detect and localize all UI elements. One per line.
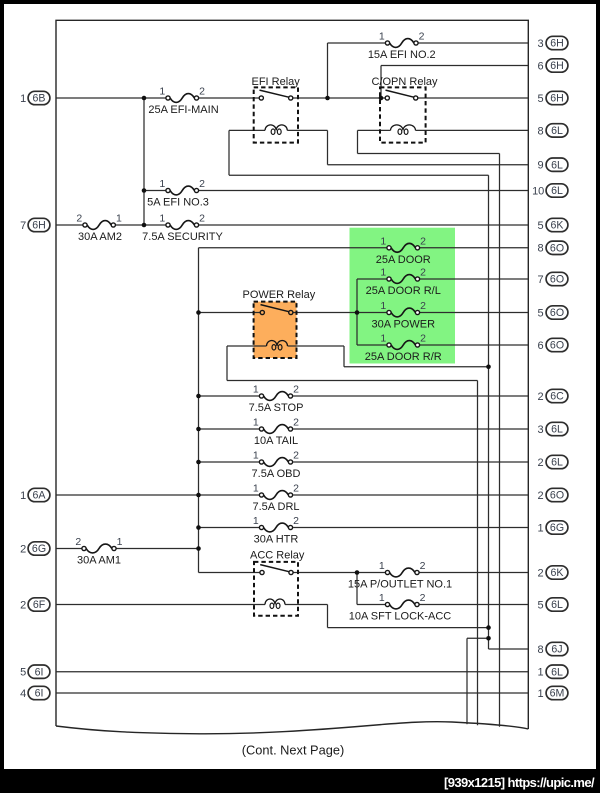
wire riser x=381 <box>380 66 382 99</box>
wire EFI relay to C/OPN relay <box>293 97 385 99</box>
frame top bar <box>0 0 600 4</box>
svg-text:1: 1 <box>116 213 122 225</box>
svg-text:30A POWER: 30A POWER <box>371 319 435 331</box>
wire 30A HTR to 1-6G <box>293 527 528 529</box>
connector 5 6I (left) <box>20 665 50 679</box>
svg-text:9: 9 <box>538 160 544 172</box>
wire 7.5A SECURITY to 5-6K <box>199 224 529 226</box>
svg-text:2: 2 <box>199 178 205 190</box>
svg-text:2: 2 <box>293 384 299 396</box>
svg-text:6L: 6L <box>551 457 563 469</box>
fuse 25A DOOR R/R <box>365 333 442 364</box>
svg-text:(Cont. Next Page): (Cont. Next Page) <box>242 743 344 758</box>
svg-text:1: 1 <box>20 490 26 502</box>
svg-text:6K: 6K <box>551 220 564 232</box>
wire EFI coil left lead <box>229 129 265 131</box>
wire row 5-6I / 1-6L (y=671.7) <box>56 671 528 673</box>
fuse 25A DOOR R/L <box>366 267 441 298</box>
connector 2 6C (right) <box>538 389 568 403</box>
svg-text:3: 3 <box>538 38 544 50</box>
wire POWER relay to 30A POWER <box>293 312 387 314</box>
connector 8 6J (right) <box>538 642 568 656</box>
svg-text:2: 2 <box>420 267 426 279</box>
svg-text:5: 5 <box>538 220 544 232</box>
svg-text:6I: 6I <box>35 666 44 678</box>
wire branch to 10A TAIL <box>199 428 260 430</box>
wire 7.5A OBD to 2-6L <box>293 461 528 463</box>
wire branch to 5A EFI NO.3 <box>144 190 166 192</box>
svg-text:5: 5 <box>538 93 544 105</box>
svg-text:1: 1 <box>380 235 386 247</box>
connector 5 6K (right) <box>538 218 568 232</box>
svg-text:6J: 6J <box>551 644 562 656</box>
junction node N (x=357,y=572.5) <box>355 570 360 575</box>
relay ACC Relay <box>250 550 305 616</box>
svg-text:5: 5 <box>538 307 544 319</box>
svg-text:1: 1 <box>20 93 26 105</box>
svg-text:6: 6 <box>538 60 544 72</box>
svg-text:7.5A OBD: 7.5A OBD <box>252 468 301 480</box>
svg-text:6A: 6A <box>33 490 47 502</box>
connector 3 6L (right) <box>538 422 568 436</box>
wire 6F feed to ACC coil (y=604.5) <box>56 604 265 606</box>
svg-text:2: 2 <box>293 450 299 462</box>
svg-text:1: 1 <box>159 86 165 98</box>
wire 30A POWER to 5-6O <box>420 312 529 314</box>
relay POWER Relay <box>243 289 316 358</box>
svg-text:1: 1 <box>380 333 386 345</box>
junction node P (x=488.5,y=627.6) <box>486 625 491 630</box>
svg-text:25A DOOR R/R: 25A DOOR R/R <box>365 351 442 363</box>
svg-text:5: 5 <box>538 599 544 611</box>
svg-text:25A EFI-MAIN: 25A EFI-MAIN <box>148 104 218 116</box>
wire POWER coil run (y=380.5) <box>227 380 478 382</box>
svg-text:10A TAIL: 10A TAIL <box>254 435 298 447</box>
frame left bar <box>0 0 4 793</box>
svg-text:4: 4 <box>20 688 26 700</box>
fuse 30A AM1 <box>75 536 122 567</box>
wire 6H feed to 30A AM2 (y=225) <box>56 224 83 226</box>
svg-text:6O: 6O <box>550 340 564 352</box>
wire EFI coil to coil-return bus (y=175.2) <box>229 174 489 176</box>
svg-text:2: 2 <box>538 457 544 469</box>
fuse 15A P/OUTLET NO.1 <box>348 560 452 591</box>
wire branch to 30A HTR <box>199 527 260 529</box>
wire 15A EFI NO.2 to 3-6H <box>418 42 528 44</box>
svg-text:1: 1 <box>253 515 259 527</box>
svg-text:25A DOOR: 25A DOOR <box>376 254 431 266</box>
connector 5 6H (right) <box>538 91 568 105</box>
fuse 30A POWER <box>371 300 435 331</box>
svg-text:6: 6 <box>538 340 544 352</box>
svg-text:[939x1215] https://upic.me/: [939x1215] https://upic.me/ <box>444 775 595 790</box>
svg-text:6K: 6K <box>551 567 564 579</box>
wire 7.5A STOP to 2-6C <box>293 395 528 397</box>
svg-text:30A AM1: 30A AM1 <box>77 555 121 567</box>
wire 25A DOOR to 8-6O <box>420 247 529 249</box>
connector 8 6O (right) <box>538 241 568 255</box>
wire 6A feed (y=495) <box>56 494 259 496</box>
svg-text:1: 1 <box>538 688 544 700</box>
fuse 25A DOOR <box>376 235 431 266</box>
svg-text:6M: 6M <box>550 688 565 700</box>
connector 1 6G (right) <box>538 521 568 535</box>
diagram border box <box>56 20 528 729</box>
fuse 7.5A STOP <box>249 384 304 415</box>
fuse 7.5A DRL <box>252 483 299 514</box>
connector 1 6B (left) <box>20 91 50 105</box>
svg-text:2: 2 <box>20 599 26 611</box>
orange highlight POWER Relay <box>254 302 297 358</box>
wire C/OPN coil run (y=153.5) <box>358 153 500 155</box>
wire 10A TAIL to 3-6L <box>293 428 528 430</box>
wire 25A DOOR R/L to 7-6O <box>420 278 529 280</box>
wire C/OPN coil right to 8-6L <box>416 129 529 131</box>
junction node C (x=381,y=98) <box>379 96 384 101</box>
junction node J (x=198.5,y=462) <box>196 460 201 465</box>
svg-text:6B: 6B <box>33 93 46 105</box>
wire branch to 7.5A OBD <box>199 461 260 463</box>
svg-text:EFI Relay: EFI Relay <box>252 76 301 88</box>
wire POWER coil left lead <box>227 345 267 347</box>
wire POWER coil right drop x=344 <box>343 346 345 367</box>
svg-text:8: 8 <box>538 125 544 137</box>
svg-text:6L: 6L <box>551 666 563 678</box>
svg-text:1: 1 <box>253 483 259 495</box>
svg-text:6H: 6H <box>550 93 564 105</box>
svg-text:6L: 6L <box>551 125 563 137</box>
wire bus to ACC relay (y=572.5) <box>199 572 260 574</box>
svg-text:2: 2 <box>20 543 26 555</box>
wire 30A AM1 to main bus <box>116 548 198 550</box>
svg-text:1: 1 <box>117 536 123 548</box>
svg-text:1: 1 <box>379 592 385 604</box>
wire 30A AM2 to node x=144 <box>115 224 165 226</box>
svg-text:1: 1 <box>159 213 165 225</box>
wire POWER coil right lead <box>288 345 345 347</box>
svg-text:2: 2 <box>538 391 544 403</box>
wire DOOR group riser x=357 <box>356 279 358 345</box>
svg-text:2: 2 <box>420 235 426 247</box>
connector 6 6O (right) <box>538 338 568 352</box>
wire branch to 25A DOOR R/L <box>357 278 387 280</box>
svg-text:1: 1 <box>159 178 165 190</box>
junction node F (x=198.5,y=312.5) <box>196 310 201 315</box>
svg-text:10A SFT LOCK-ACC: 10A SFT LOCK-ACC <box>349 611 452 623</box>
junction node E (x=144,y=225) <box>142 223 147 228</box>
wire EFI coil to 9-6L (y=164.7) <box>328 164 529 166</box>
svg-text:10: 10 <box>532 185 544 197</box>
connector 7 6O (right) <box>538 272 568 286</box>
svg-text:30A HTR: 30A HTR <box>254 534 299 546</box>
svg-text:2: 2 <box>538 567 544 579</box>
svg-text:6L: 6L <box>551 185 563 197</box>
junction node L (x=198.5,y=527.5) <box>196 525 201 530</box>
wire C/OPN relay to 5-6H <box>418 97 529 99</box>
junction node K (x=198.5,y=495) <box>196 493 201 498</box>
svg-text:7.5A STOP: 7.5A STOP <box>249 402 304 414</box>
wire branch to 7.5A STOP <box>199 395 260 397</box>
svg-text:2: 2 <box>419 31 425 43</box>
svg-text:1: 1 <box>538 667 544 679</box>
wire ACC relay to 15A P/OUTLET NO.1 <box>293 572 385 574</box>
svg-text:1: 1 <box>379 560 385 572</box>
svg-text:30A AM2: 30A AM2 <box>78 231 122 243</box>
wire EFI coil right lead <box>287 129 327 131</box>
svg-text:6O: 6O <box>550 274 564 286</box>
wire coil-return to 8-6J (y=649) <box>489 648 529 650</box>
connector 2 6F (left) <box>20 598 50 612</box>
svg-text:6O: 6O <box>550 307 564 319</box>
svg-text:7: 7 <box>538 274 544 286</box>
junction node H (x=198.5,y=396) <box>196 394 201 399</box>
wire branch to 6-6H (y=65.5) <box>381 65 528 67</box>
wire drop x=357 to SFT LOCK row <box>356 573 358 605</box>
svg-text:6C: 6C <box>550 391 564 403</box>
svg-text:6H: 6H <box>32 220 46 232</box>
svg-text:1: 1 <box>253 384 259 396</box>
svg-text:1: 1 <box>380 267 386 279</box>
svg-text:2: 2 <box>420 560 426 572</box>
svg-text:7: 7 <box>20 220 26 232</box>
fuse 10A TAIL <box>253 417 299 448</box>
wire next-page stub x=467 <box>466 638 468 724</box>
connector 1 6M (right) <box>538 686 568 700</box>
svg-text:15A P/OUTLET NO.1: 15A P/OUTLET NO.1 <box>348 579 452 591</box>
svg-text:1: 1 <box>538 522 544 534</box>
svg-text:2: 2 <box>420 333 426 345</box>
svg-text:7.5A SECURITY: 7.5A SECURITY <box>142 231 223 243</box>
svg-text:6F: 6F <box>33 599 46 611</box>
fuse 7.5A OBD <box>252 450 301 481</box>
svg-text:6O: 6O <box>550 243 564 255</box>
svg-text:6L: 6L <box>551 599 563 611</box>
connector 1 6L (right) <box>538 665 568 679</box>
svg-text:C/OPN Relay: C/OPN Relay <box>372 76 439 88</box>
svg-text:2: 2 <box>293 417 299 429</box>
wire branch to 25A DOOR R/R <box>357 344 387 346</box>
svg-text:6H: 6H <box>550 60 564 72</box>
connector 5 6O (right) <box>538 306 568 320</box>
connector 2 6K (right) <box>538 566 568 580</box>
fuse 15A EFI NO.2 <box>368 31 436 62</box>
svg-text:8: 8 <box>538 243 544 255</box>
wire 5A EFI NO.3 to 10-6L <box>199 190 529 192</box>
svg-text:6I: 6I <box>35 688 44 700</box>
wire 6B feed to 25A EFI-MAIN (y=98) <box>56 97 166 99</box>
svg-text:6L: 6L <box>551 424 563 436</box>
junction node B (x=327.5,y=98) <box>325 96 330 101</box>
svg-text:6H: 6H <box>550 38 564 50</box>
junction node Q (x=488.5,y=638.3) <box>486 636 491 641</box>
svg-text:2: 2 <box>75 536 81 548</box>
svg-text:6L: 6L <box>551 159 563 171</box>
green highlight DOOR fuse group <box>350 228 456 364</box>
wire bus to POWER relay (y=312.5) <box>199 312 261 314</box>
svg-text:25A DOOR R/L: 25A DOOR R/L <box>366 285 441 297</box>
wire ACC coil drop x=327.5 <box>327 605 329 628</box>
wire continuation drop x=477.5 <box>477 381 479 726</box>
relay EFI Relay <box>252 76 301 143</box>
fuse 10A SFT LOCK-ACC <box>349 592 452 623</box>
connector 8 6L (right) <box>538 124 568 138</box>
wire C/OPN return drop x=499.5 <box>499 154 501 727</box>
frame right bar <box>596 0 600 793</box>
svg-text:7.5A DRL: 7.5A DRL <box>252 501 299 513</box>
svg-text:2: 2 <box>420 300 426 312</box>
svg-text:1: 1 <box>380 300 386 312</box>
fuse 5A EFI NO.3 <box>147 178 209 209</box>
torn bottom edge (cont. next page) <box>56 722 528 734</box>
wire branch to 10A SFT LOCK-ACC <box>357 604 385 606</box>
svg-text:6G: 6G <box>32 543 46 555</box>
svg-text:1: 1 <box>253 450 259 462</box>
fuse 30A AM2 <box>76 213 122 244</box>
svg-text:ACC Relay: ACC Relay <box>250 550 305 562</box>
junction node A (x=144,y=98) <box>142 96 147 101</box>
wire EFI coil left drop x=229 <box>228 130 230 175</box>
connector 2 6O (right) <box>538 488 568 502</box>
wire 10A SFT LOCK-ACC to 5-6L <box>419 604 528 606</box>
connector 4 6I (left) <box>20 686 50 700</box>
svg-text:6O: 6O <box>550 490 564 502</box>
relay C/OPN Relay <box>372 76 439 143</box>
wire row 4-6I / 1-6M (y=693) <box>56 692 528 694</box>
connector 7 6H (left) <box>20 218 50 232</box>
fuse 25A EFI-MAIN <box>148 86 218 117</box>
svg-text:1: 1 <box>379 31 385 43</box>
svg-text:1: 1 <box>253 417 259 429</box>
junction node M (x=198.5,y=548.5) <box>196 546 201 551</box>
junction node O (x=488.5,y=366.8) <box>486 365 491 370</box>
svg-text:2: 2 <box>76 213 82 225</box>
connector 2 6L (right) <box>538 455 568 469</box>
wire POWER coil left drop x=227 <box>226 346 228 381</box>
connector 2 6G (left) <box>20 542 50 556</box>
svg-text:2: 2 <box>293 515 299 527</box>
svg-text:5A EFI NO.3: 5A EFI NO.3 <box>147 197 209 209</box>
wire feed to 25A DOOR (y=247.8) <box>199 247 387 249</box>
wire 6G feed to 30A AM1 (y=548.5) <box>56 548 82 550</box>
wire coil-return bus x=488.5 <box>488 175 490 649</box>
wire POWER coil to coil-return bus (y=366.8) <box>344 366 489 368</box>
connector 6 6H (right) <box>538 59 568 73</box>
frame bottom bar <box>0 769 600 793</box>
wire 15A EFI NO.2 feed (y=43) <box>328 42 386 44</box>
wire ACC coil right lead <box>285 604 328 606</box>
wire main bus riser x=198.5 <box>198 248 200 573</box>
wire riser x=327.5 (node to EFI NO.2) <box>327 43 329 98</box>
fuse 7.5A SECURITY <box>142 213 223 244</box>
svg-text:2: 2 <box>538 490 544 502</box>
connector 10 6L (right) <box>532 184 568 198</box>
connector 9 6L (right) <box>538 158 568 172</box>
wire 7.5A DRL to 2-6O <box>293 494 528 496</box>
junction node I (x=198.5,y=429) <box>196 427 201 432</box>
svg-text:8: 8 <box>538 644 544 656</box>
wire EFI coil drop x=327.5 <box>327 130 329 164</box>
svg-text:2: 2 <box>199 86 205 98</box>
wire ACC coil to coil-return bus (y=627.6) <box>328 627 489 629</box>
wire C/OPN coil left lead <box>358 129 391 131</box>
wire C/OPN coil drop x=357.5 <box>357 130 359 153</box>
junction node G (x=357,y=312.5) <box>355 310 360 315</box>
svg-text:2: 2 <box>199 213 205 225</box>
wire stub link (y=638.3) <box>467 637 489 639</box>
svg-text:POWER Relay: POWER Relay <box>243 289 316 301</box>
fuse 30A HTR <box>253 515 299 546</box>
svg-text:2: 2 <box>420 592 426 604</box>
svg-text:6G: 6G <box>550 522 564 534</box>
svg-text:2: 2 <box>293 483 299 495</box>
junction node D (x=144,y=190.5) <box>142 188 147 193</box>
connector 3 6H (right) <box>538 36 568 50</box>
connector 5 6L (right) <box>538 598 568 612</box>
wire bus riser x=144 <box>143 98 145 225</box>
svg-text:5: 5 <box>20 667 26 679</box>
wire 15A P/OUTLET NO.1 to 2-6K <box>419 572 528 574</box>
svg-text:15A EFI NO.2: 15A EFI NO.2 <box>368 49 436 61</box>
wire 25A EFI-MAIN to EFI relay <box>199 97 260 99</box>
connector 1 6A (left) <box>20 488 50 502</box>
svg-text:3: 3 <box>538 424 544 436</box>
wire 25A DOOR R/R to 6-6O <box>420 344 529 346</box>
